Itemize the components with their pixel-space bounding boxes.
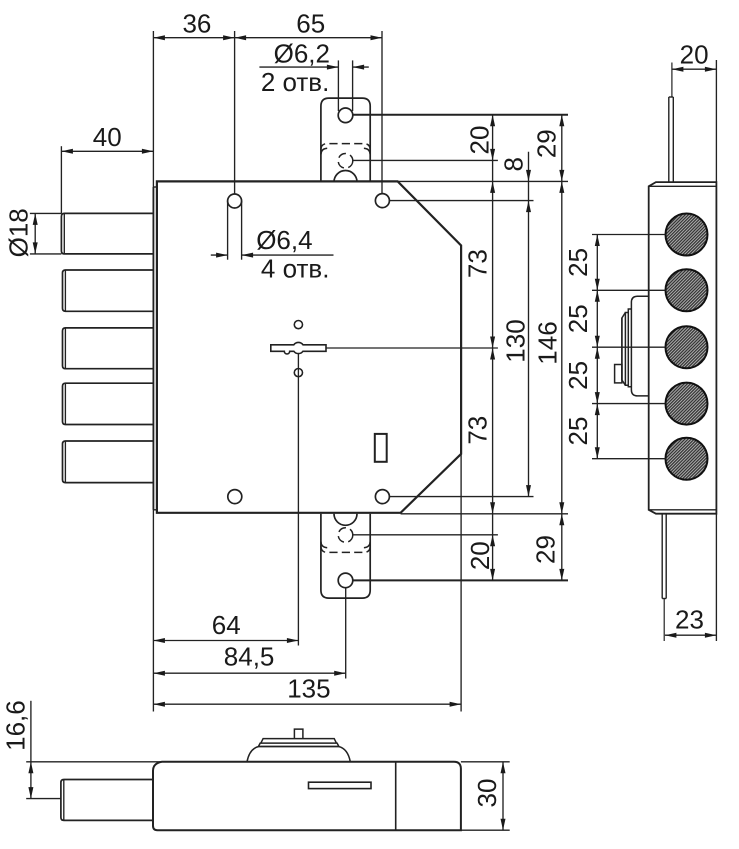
mounting hole top-left <box>228 194 242 208</box>
svg-text:25: 25 <box>563 304 593 333</box>
key hole: upper small circle <box>294 321 302 329</box>
svg-text:Ø6,4: Ø6,4 <box>256 225 312 255</box>
svg-text:135: 135 <box>287 674 330 704</box>
dome knob <box>294 729 303 739</box>
svg-text:25: 25 <box>563 248 593 277</box>
side plate right edge extensions <box>715 60 717 182</box>
svg-text:30: 30 <box>472 779 502 808</box>
top strike plate screw hole <box>338 108 353 123</box>
top strike plate big hole arc <box>334 171 357 183</box>
svg-text:29: 29 <box>531 535 561 564</box>
bottom view partition line <box>395 762 397 830</box>
bolt 4 <box>63 383 154 424</box>
faceplate bottom tick <box>153 509 157 511</box>
leader from bottom-right mounting hole <box>389 496 533 498</box>
svg-text:64: 64 <box>212 610 241 640</box>
svg-text:Ø6,2: Ø6,2 <box>274 39 330 69</box>
dimension dia.18 <box>30 213 62 254</box>
svg-text:40: 40 <box>93 122 122 152</box>
svg-text:20: 20 <box>465 541 495 570</box>
key horizontal centerline to right dims <box>326 347 498 349</box>
bolt 1 (top, with dia.18 dim) <box>61 213 153 254</box>
svg-text:8: 8 <box>499 157 529 171</box>
body right edge extension down (135 dim) <box>460 454 462 712</box>
svg-text:73: 73 <box>463 416 493 445</box>
small rectangular slot in body <box>375 434 387 462</box>
top strike plate hidden contour (dashed) <box>321 144 370 150</box>
svg-text:130: 130 <box>501 319 531 362</box>
bottom strike plate inner contour <box>321 542 370 548</box>
svg-text:4 отв.: 4 отв. <box>261 254 330 284</box>
leader from bottom strike screw hole <box>353 579 568 581</box>
bottom view cylinder dome base <box>247 729 350 762</box>
bottom screw hole extension down to 84,5 dim <box>345 588 347 679</box>
bottom rod extension <box>663 599 665 642</box>
dimension 30 <box>461 762 510 830</box>
body top edge extension to right <box>398 180 568 182</box>
bolt 5 <box>63 441 154 483</box>
side circle center leaders <box>592 235 666 459</box>
side bolt circle 4 <box>666 383 708 425</box>
key hole: cross-key slot <box>271 342 326 354</box>
dimension 40 <box>61 146 153 213</box>
leader from bottom strike hidden hole <box>353 534 498 536</box>
bolt 2 <box>63 270 154 311</box>
svg-text:146: 146 <box>533 321 563 364</box>
side bolt circle 3 <box>666 326 708 368</box>
side plate outline <box>649 182 717 514</box>
dimension 16,6 <box>30 701 32 799</box>
top strike plate hidden hole (dashed) <box>338 154 353 169</box>
mounting hole bottom-left <box>228 490 242 504</box>
bottom strike plate outline <box>321 514 370 598</box>
note dia.6,2 / 2 otv. leader <box>259 60 368 111</box>
bottom view slot <box>309 782 372 788</box>
top rod <box>669 97 674 182</box>
faceplate top tick <box>153 186 157 188</box>
svg-text:Ø18: Ø18 <box>4 208 34 257</box>
top rod extension <box>671 63 673 98</box>
svg-text:29: 29 <box>532 129 562 158</box>
lock body outline <box>157 181 461 512</box>
dome plate 1 <box>258 743 339 746</box>
leader from top strike hidden hole <box>353 159 498 161</box>
bottom view bolt axis line <box>26 798 61 800</box>
bottom strike plate hidden hole (dashed) <box>338 528 353 543</box>
key vertical centerline down to 64-dim <box>297 354 299 646</box>
bottom strike plate big hole arc <box>334 514 357 526</box>
svg-text:25: 25 <box>563 417 593 446</box>
svg-text:23: 23 <box>675 605 704 635</box>
faceplate strip <box>152 187 154 510</box>
leader from top-right mounting hole <box>389 200 533 202</box>
faceplate front line (long vertical at x=153.4, also extension for top/bottom dims) <box>152 31 154 712</box>
note dia.6,4 / 4 otv. leader <box>211 201 334 260</box>
svg-text:36: 36 <box>182 9 211 39</box>
right dimension column 2: 8 / 130 <box>528 152 530 497</box>
mounting hole top-right <box>375 194 389 208</box>
cylinder dome (side profile) <box>615 296 649 396</box>
svg-text:20: 20 <box>680 40 709 70</box>
key hole: lower small circle <box>294 369 302 377</box>
dimension line 36/65 <box>153 37 382 39</box>
svg-text:25: 25 <box>563 361 593 390</box>
side bolt circle 1 <box>666 214 708 256</box>
svg-text:65: 65 <box>296 9 325 39</box>
svg-text:73: 73 <box>463 249 493 278</box>
right dimension column 3: 29 / 146 / 29 <box>561 115 563 581</box>
bottom view faceplate line (extension for 16,6) <box>26 761 162 763</box>
bottom strike plate hidden contour (dashed) <box>321 546 370 552</box>
right dimension column 1: 20 / 73 / 73 / 20 <box>492 115 494 581</box>
svg-text:16,6: 16,6 <box>1 700 31 751</box>
body bottom edge extension to right <box>401 513 568 515</box>
bottom strike plate screw hole <box>338 573 353 588</box>
side bolt circle 5 <box>666 438 708 480</box>
side bolt circle 2 <box>666 269 708 311</box>
leader from top strike screw hole <box>353 114 568 116</box>
svg-text:84,5: 84,5 <box>224 642 275 672</box>
bolt 3 <box>63 328 154 369</box>
side dimension 20 (top) <box>672 68 717 70</box>
svg-text:20: 20 <box>465 126 495 155</box>
top strike plate outline <box>321 98 370 182</box>
extension line x=382 <box>381 31 383 193</box>
bottom rod <box>662 514 666 599</box>
svg-text:2 отв.: 2 отв. <box>261 67 330 97</box>
dome plate 2 <box>261 739 337 744</box>
mounting hole bottom-right <box>375 490 389 504</box>
side 25-spacing dimension line <box>596 235 598 459</box>
top strike plate inner contour <box>321 148 370 154</box>
side dimension 23 (bottom) <box>665 634 717 636</box>
bottom view bolt <box>61 780 153 821</box>
bottom view body <box>153 762 461 830</box>
extension line x=234.6 <box>234 31 236 194</box>
